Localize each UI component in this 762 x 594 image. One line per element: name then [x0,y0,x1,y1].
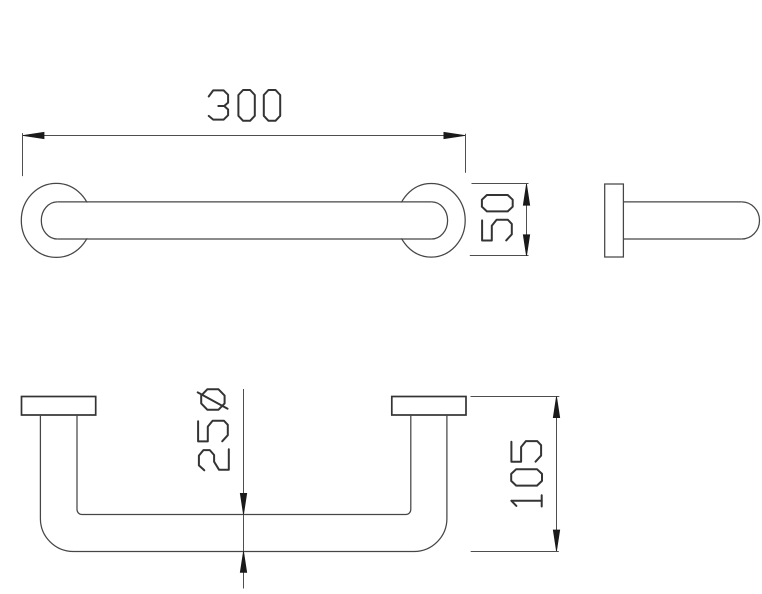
front view: bar bottom line [57,238,431,240]
dim 25dia: lower arrowhead (points up) [240,551,246,572]
plan view: left flange plate rectangle [22,397,96,416]
front view: bar right end cap arc [432,202,448,239]
plan view: outer bottom contour with corner arcs [40,519,447,552]
dim 300: text "300" [209,90,281,121]
dim 105: bottom extension line [471,551,559,553]
plan view: right post outer line [446,415,448,519]
dim 105: top extension line [471,396,560,398]
dim 300: right arrowhead [444,132,465,138]
dim 25dia: dimension line [243,389,245,589]
front view: bar top line [57,201,431,203]
dim 25dia: text "25Ø" (rotated) [198,389,229,470]
front view: bar body (hides circle arcs behind bar) [57,203,431,239]
plan view: left post outer line [39,415,41,519]
dim 300: dimension line [23,135,465,137]
side view: bar rounded end arc [742,202,760,239]
front view: left flange circle [21,183,91,257]
dim 105: top arrowhead [553,397,559,418]
plan view: right flange plate rectangle [392,397,466,416]
dim 105: bottom arrowhead [553,530,559,551]
side view: wall plate rectangle [605,184,624,257]
side view: bar bottom line [623,238,741,240]
dim 105: dimension line [556,397,558,552]
front view: right flange circle [397,184,465,258]
dim 25dia: upper arrowhead (points down) [240,493,246,514]
dim 50: bottom arrowhead [523,235,529,256]
dim 50: top extension line [472,183,529,185]
dim 50: dimension line [526,184,528,256]
dim 300: left witness line [22,133,24,176]
side view: bar top line [623,201,741,203]
dim 300: right witness line [465,134,467,173]
dim 50: bottom extension line [470,255,529,257]
plan view: inner bottom contour with fillets [77,510,411,515]
dim 105: text "105" (rotated) [511,441,542,506]
plan view: left post inner line [76,415,78,510]
dim 300: left arrowhead [23,132,44,138]
dim 50: top arrowhead [523,184,529,205]
plan view: right post inner line [410,415,412,510]
front view: bar left end cap arc [41,202,57,239]
dim 50: text "50" (rotated) [482,195,513,241]
